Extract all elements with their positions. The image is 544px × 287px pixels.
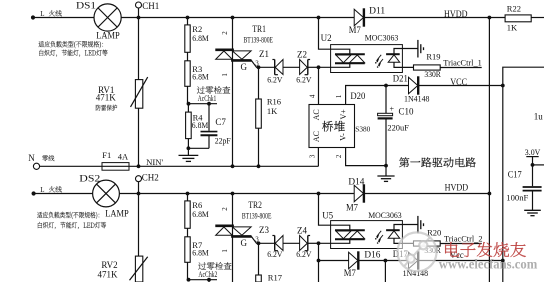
resistor R2 — [187, 18, 189, 25]
label 过零检查 ch1 — [197, 86, 230, 94]
capacitor C7 — [208, 104, 210, 131]
svg-text:330R: 330R — [424, 69, 441, 79]
svg-text:Z2: Z2 — [297, 50, 307, 60]
wire live L2 main — [34, 193, 93, 195]
ground below C10 — [385, 166, 387, 176]
wire U5-drop to bottom — [318, 243, 320, 282]
label 桥堆 — [322, 121, 345, 132]
wire Z1-Z2 — [283, 66, 300, 68]
node junction D16 tap — [317, 259, 321, 263]
wire live to U2 pin — [319, 18, 350, 55]
svg-text:M7: M7 — [349, 25, 361, 35]
svg-text:4: 4 — [309, 94, 317, 98]
resistor R7 — [187, 228, 189, 237]
diode D11 — [354, 9, 363, 26]
svg-text:D16: D16 — [364, 249, 381, 259]
node junction C10-/gnd — [384, 164, 388, 168]
triac TR2 wire — [232, 194, 234, 283]
node junction 3.0V — [531, 163, 535, 167]
svg-text:L: L — [40, 186, 44, 194]
earth ground right of U2 — [417, 40, 419, 58]
op-amp U5 optocoupler MOC3063 — [331, 221, 403, 249]
node junction gate2/R17 — [257, 241, 261, 245]
svg-text:3.0V: 3.0V — [525, 147, 541, 157]
svg-text:4A: 4A — [118, 151, 129, 161]
svg-text:471K: 471K — [96, 93, 117, 103]
wire C-ch2 stem — [384, 261, 386, 283]
wire bridge pin4 — [318, 67, 320, 104]
node junction R2/live — [186, 16, 190, 20]
resistor R6 — [187, 194, 189, 201]
capacitor C10 — [385, 86, 387, 114]
svg-text:R19: R19 — [426, 52, 440, 62]
wire 3.0V to edge — [533, 164, 544, 166]
diode D17 wire — [385, 260, 408, 262]
wire gate to Z1 — [259, 66, 275, 68]
zener Z3 — [274, 236, 276, 251]
svg-text:CH1: CH1 — [142, 1, 159, 11]
resistor R19 — [414, 65, 441, 70]
wire Z3-Z4 — [283, 242, 300, 244]
svg-text:DS2: DS2 — [79, 175, 100, 185]
connector CH1 — [136, 2, 142, 8]
svg-text:NIN': NIN' — [146, 157, 163, 167]
svg-text:AC: AC — [312, 131, 321, 142]
diode D17 — [409, 252, 418, 269]
svg-text:CH2: CH2 — [142, 173, 159, 183]
svg-text:C7: C7 — [215, 117, 226, 127]
note load-type text ch1 — [39, 41, 104, 48]
varistor RV1 wire — [138, 18, 140, 167]
wire D21 to VCC node — [418, 85, 503, 87]
svg-text:U2: U2 — [321, 33, 332, 43]
svg-text:Z4: Z4 — [297, 226, 307, 236]
zener Z4 — [307, 236, 309, 251]
svg-text:TriacCtrl_1: TriacCtrl_1 — [443, 59, 482, 68]
svg-text:6.2V: 6.2V — [296, 74, 312, 84]
triac TR2 gate wire — [251, 236, 258, 243]
svg-text:TR1: TR1 — [252, 24, 266, 34]
svg-text:D20: D20 — [350, 91, 365, 101]
svg-text:TR2: TR2 — [248, 200, 262, 210]
svg-text:6.8M: 6.8M — [192, 120, 209, 130]
resistor R4 — [187, 104, 189, 112]
svg-text:2: 2 — [221, 31, 229, 35]
svg-text:1K: 1K — [507, 22, 518, 32]
svg-text:M7: M7 — [346, 203, 358, 213]
varistor RV1 — [135, 80, 142, 109]
note load-type text ch2 — [37, 212, 99, 219]
svg-text:471K: 471K — [98, 270, 119, 280]
watermark 电子发烧友 — [445, 242, 526, 257]
svg-text:www.elecfans.com: www.elecfans.com — [439, 256, 538, 271]
lamp DS1 — [94, 4, 121, 31]
resistor R16 — [258, 67, 260, 99]
wire AcChk2 node — [189, 279, 218, 281]
wire VCC-rail corner — [503, 67, 544, 282]
diode D16 wire — [319, 260, 349, 262]
svg-text:AC: AC — [312, 109, 321, 120]
svg-text:D21: D21 — [393, 73, 408, 83]
node junction VCC2/rail — [501, 259, 505, 263]
resistor R3 — [187, 52, 189, 61]
wire D16 to node — [358, 260, 385, 262]
wire U2 lower-left pin — [319, 64, 350, 68]
label 过零检查 ch2 — [198, 262, 231, 270]
diode D21 — [409, 77, 418, 94]
node junction R4/C7/gnd — [187, 146, 191, 150]
ground below C17 — [524, 209, 541, 211]
node junction TR1/live — [231, 16, 235, 20]
wire Z4 to node — [308, 242, 319, 244]
svg-text:MOC3063: MOC3063 — [365, 32, 399, 42]
triac TR2 — [215, 225, 234, 228]
svg-text:AcChk2: AcChk2 — [198, 269, 217, 279]
resistor R20 — [414, 241, 441, 246]
node junction gate/R16 — [257, 65, 261, 69]
triac TR1 — [215, 48, 234, 51]
node junction Z2/U2/bridge — [317, 65, 321, 69]
node junction U5-drop/live — [317, 192, 321, 196]
svg-text:LAMP: LAMP — [105, 210, 129, 220]
svg-text:2: 2 — [335, 154, 343, 158]
wire Z2 to node — [308, 66, 319, 68]
capacitor C17 — [523, 186, 542, 188]
svg-text:V+: V+ — [339, 109, 348, 120]
wire bridge pin1 to VCC wire — [346, 86, 386, 105]
wire U5 lower-left pin — [319, 240, 350, 244]
node junction CH2/live — [137, 192, 141, 196]
node junction HVDD2/rail — [488, 192, 492, 196]
svg-text:R22: R22 — [507, 4, 521, 14]
svg-text:MOC3063: MOC3063 — [368, 210, 402, 220]
node junction D16/D17 — [384, 259, 388, 263]
wire NIN — [40, 165, 319, 167]
svg-text:3: 3 — [309, 154, 317, 158]
op-amp U2 optocoupler MOC3063 — [331, 45, 403, 73]
svg-text:22pF: 22pF — [215, 135, 231, 145]
svg-text:V-: V- — [338, 133, 347, 141]
svg-text:HVDD: HVDD — [444, 9, 468, 19]
node junction R6/live — [186, 192, 190, 196]
svg-text:D14: D14 — [348, 177, 365, 187]
diode D14 — [354, 185, 363, 202]
watermark logo circle — [398, 232, 437, 271]
node junction C10/VCC — [384, 84, 388, 88]
zener Z2 — [307, 60, 309, 75]
triac TR1 gate wire — [251, 60, 258, 67]
wire U2 LED pins — [394, 49, 418, 55]
svg-text:6.2V: 6.2V — [267, 249, 283, 259]
triac TR1 wire — [232, 18, 234, 167]
node junction TR2/live — [231, 192, 235, 196]
svg-text:VCC: VCC — [450, 77, 467, 87]
node junction HVDD/R22 — [488, 16, 492, 20]
svg-text:1u: 1u — [534, 112, 544, 122]
svg-text:1: 1 — [221, 73, 229, 77]
svg-text:100nF: 100nF — [506, 193, 528, 203]
svg-text:220uF: 220uF — [387, 122, 409, 132]
zener Z1 — [274, 60, 276, 75]
svg-text:G: G — [241, 62, 248, 72]
lamp DS2 — [93, 180, 120, 207]
svg-text:6.8M: 6.8M — [192, 33, 209, 43]
connector CH2 — [136, 176, 142, 182]
earth ground right of U5 — [417, 216, 419, 234]
svg-text:L: L — [40, 10, 44, 18]
wire bridge pin2 to gnd node — [346, 148, 386, 166]
node junction CH1/live — [137, 16, 141, 20]
svg-text:S380: S380 — [355, 125, 370, 134]
svg-text:2: 2 — [221, 207, 229, 211]
node junction VCC1/rail — [501, 84, 505, 88]
wire bridge pin3 to NIN — [317, 148, 319, 167]
svg-text:BT139-800E: BT139-800E — [244, 35, 274, 44]
svg-text:TriacCtrl_2: TriacCtrl_2 — [444, 235, 483, 244]
svg-text:R17: R17 — [268, 273, 282, 282]
svg-text:F1: F1 — [102, 150, 111, 160]
connector N terminal — [33, 163, 39, 169]
resistor R17 — [258, 243, 260, 275]
node junction RV1/NIN — [137, 164, 141, 168]
svg-text:Z3: Z3 — [259, 225, 269, 235]
svg-text:1K: 1K — [267, 106, 278, 116]
node junction U2-drop/live — [317, 16, 321, 20]
wire AcChk1 node — [189, 103, 218, 105]
svg-text:D11: D11 — [369, 6, 385, 16]
svg-text:1N4148: 1N4148 — [404, 93, 430, 103]
bridge rectifier D20 box — [309, 105, 355, 148]
svg-text:6.8M: 6.8M — [192, 72, 209, 82]
svg-text:1: 1 — [221, 249, 229, 253]
fuse F1 4A — [102, 163, 129, 171]
svg-text:1: 1 — [335, 94, 343, 98]
wire gate2 to Z3 — [259, 242, 275, 244]
wire HVDD vertical — [488, 18, 490, 283]
resistor R22 — [505, 15, 531, 22]
svg-text:BT139-800E: BT139-800E — [242, 211, 272, 220]
svg-text:C17: C17 — [508, 170, 522, 180]
svg-text:U5: U5 — [322, 211, 333, 221]
node L2 terminal — [31, 191, 35, 195]
svg-text:+: + — [390, 105, 395, 114]
node L terminal — [31, 15, 35, 19]
svg-text:DS1: DS1 — [76, 1, 96, 11]
wire D17 to VCC2 node — [418, 260, 503, 262]
diode D21 wire — [386, 85, 409, 87]
svg-text:AcChk1: AcChk1 — [198, 93, 217, 103]
svg-text:HVDD: HVDD — [445, 183, 469, 193]
svg-text:6.8M: 6.8M — [192, 248, 209, 258]
svg-text:6.8M: 6.8M — [192, 209, 209, 219]
node junction Z4/U5 — [317, 241, 321, 245]
node junction R16/NIN — [257, 164, 261, 168]
svg-text:6.2V: 6.2V — [296, 249, 312, 259]
wire live2 to U5 pin — [319, 194, 350, 231]
svg-text:Z1: Z1 — [259, 49, 269, 59]
label 第一路驱动电路 — [399, 157, 476, 167]
svg-text:C10: C10 — [399, 107, 415, 117]
ground below R4 — [187, 148, 189, 155]
varistor RV2 wire — [138, 194, 140, 257]
wire U5 LED pins — [394, 225, 418, 231]
wire live L1 main — [33, 17, 94, 19]
svg-text:N: N — [28, 153, 35, 163]
svg-text:LAMP: LAMP — [96, 31, 120, 41]
varistor RV2 — [135, 256, 142, 282]
node junction TR1/NIN — [231, 164, 235, 168]
svg-text:M7: M7 — [344, 268, 356, 278]
svg-text:G: G — [241, 238, 248, 248]
diode D16 — [349, 252, 358, 269]
svg-text:6.2V: 6.2V — [267, 74, 283, 84]
